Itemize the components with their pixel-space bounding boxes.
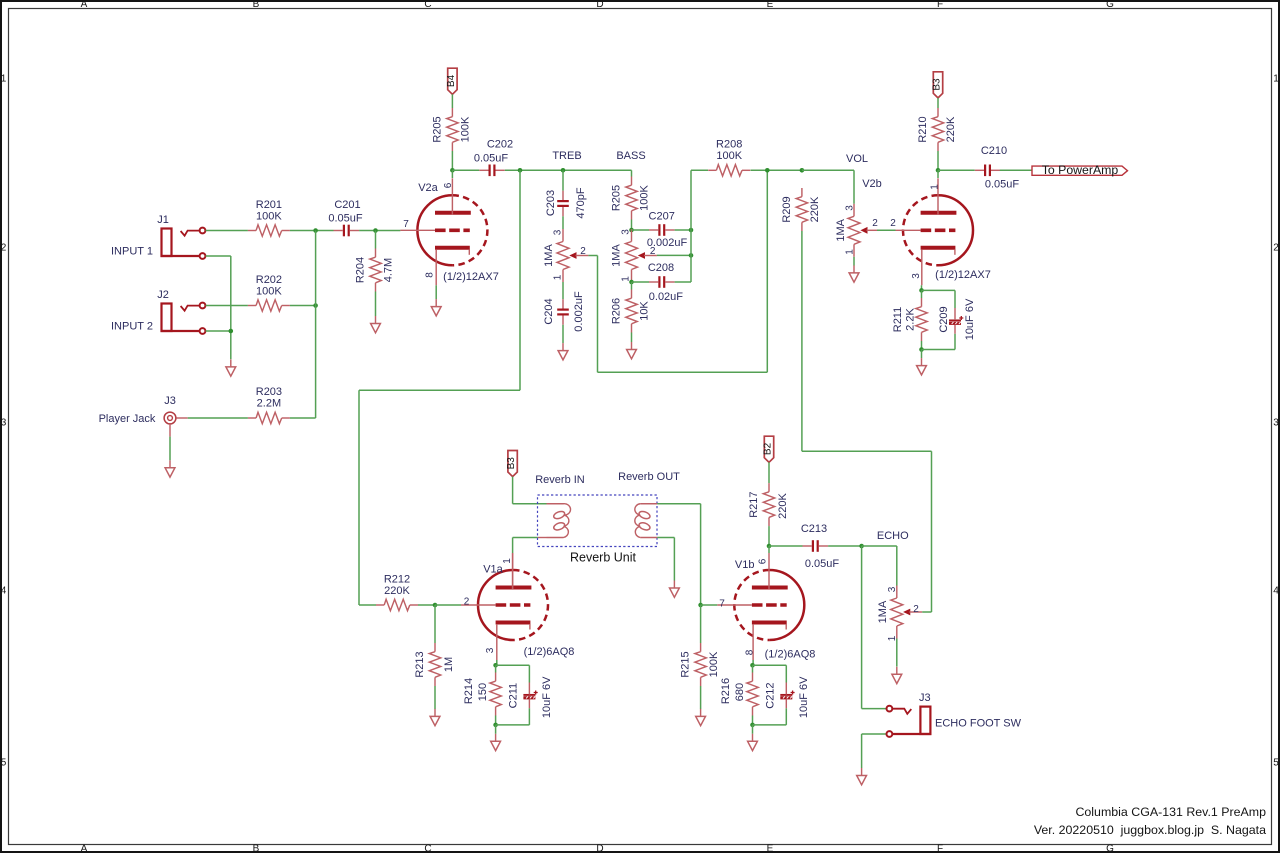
- svg-text:C209: C209: [938, 306, 950, 332]
- svg-text:INPUT 2: INPUT 2: [111, 320, 153, 332]
- svg-text:1M: 1M: [443, 657, 455, 672]
- svg-text:R205: R205: [431, 116, 443, 142]
- svg-text:R210: R210: [917, 116, 929, 142]
- svg-text:8: 8: [744, 649, 755, 655]
- svg-text:J1: J1: [157, 214, 169, 226]
- svg-text:R205: R205: [610, 185, 622, 211]
- svg-text:1MA: 1MA: [877, 600, 889, 623]
- svg-text:3: 3: [887, 586, 898, 592]
- svg-text:3: 3: [911, 273, 922, 279]
- svg-text:C213: C213: [801, 523, 827, 535]
- svg-text:R209: R209: [781, 196, 793, 222]
- svg-text:3: 3: [485, 647, 496, 653]
- svg-text:100K: 100K: [256, 286, 282, 298]
- svg-text:(1/2)12AX7: (1/2)12AX7: [935, 269, 991, 281]
- svg-text:D: D: [596, 0, 603, 10]
- svg-text:(1/2)6AQ8: (1/2)6AQ8: [524, 646, 575, 658]
- svg-text:1MA: 1MA: [543, 244, 555, 267]
- svg-text:C: C: [424, 844, 431, 853]
- svg-text:0.002uF: 0.002uF: [573, 291, 585, 332]
- svg-text:B: B: [253, 844, 260, 853]
- svg-text:680: 680: [734, 683, 746, 701]
- svg-text:10uF 6V: 10uF 6V: [798, 676, 810, 718]
- svg-text:2: 2: [872, 218, 878, 229]
- svg-text:1: 1: [553, 274, 564, 280]
- svg-text:Reverb OUT: Reverb OUT: [618, 471, 680, 483]
- svg-text:Reverb IN: Reverb IN: [535, 474, 585, 486]
- svg-text:A: A: [81, 0, 88, 10]
- svg-text:A: A: [81, 844, 88, 853]
- svg-text:C202: C202: [487, 138, 513, 150]
- svg-text:Ver. 20220510 juggbox.blog.jp: Ver. 20220510 juggbox.blog.jp S. Nagata: [1034, 823, 1266, 837]
- svg-text:R213: R213: [414, 651, 426, 677]
- svg-text:E: E: [767, 844, 774, 853]
- svg-text:3: 3: [1273, 418, 1279, 429]
- svg-text:0.05uF: 0.05uF: [328, 212, 363, 224]
- svg-text:BASS: BASS: [616, 150, 645, 162]
- svg-text:5: 5: [1, 758, 7, 769]
- svg-text:1: 1: [930, 184, 941, 190]
- svg-text:1: 1: [845, 249, 856, 255]
- svg-text:C204: C204: [543, 298, 555, 324]
- svg-text:1: 1: [502, 558, 513, 564]
- svg-text:3: 3: [845, 205, 856, 211]
- svg-text:100K: 100K: [459, 116, 471, 142]
- svg-text:Player Jack: Player Jack: [99, 413, 156, 425]
- svg-text:C212: C212: [764, 682, 776, 708]
- svg-text:C201: C201: [334, 199, 360, 211]
- svg-text:R214: R214: [463, 678, 475, 704]
- svg-text:R217: R217: [748, 491, 760, 517]
- svg-text:6: 6: [443, 182, 454, 188]
- svg-text:3: 3: [621, 229, 632, 235]
- svg-text:100K: 100K: [708, 651, 720, 677]
- svg-text:7: 7: [719, 599, 725, 610]
- svg-text:220K: 220K: [777, 492, 789, 518]
- svg-text:2: 2: [913, 604, 919, 615]
- svg-text:ECHO FOOT SW: ECHO FOOT SW: [935, 717, 1022, 729]
- svg-text:0.05uF: 0.05uF: [805, 558, 840, 570]
- svg-text:J2: J2: [157, 289, 169, 301]
- svg-text:R215: R215: [679, 651, 691, 677]
- svg-text:2: 2: [1, 243, 7, 254]
- svg-text:100K: 100K: [638, 184, 650, 210]
- svg-text:5: 5: [1273, 758, 1279, 769]
- svg-text:C210: C210: [981, 145, 1007, 157]
- svg-text:1MA: 1MA: [610, 244, 622, 267]
- svg-text:0.002uF: 0.002uF: [647, 237, 688, 249]
- svg-text:B: B: [253, 0, 260, 10]
- svg-text:8: 8: [425, 272, 436, 278]
- svg-text:ECHO: ECHO: [877, 530, 909, 542]
- svg-text:7: 7: [403, 219, 409, 230]
- svg-text:4: 4: [1, 586, 7, 597]
- svg-text:G: G: [1106, 844, 1114, 853]
- svg-text:100K: 100K: [256, 211, 282, 223]
- svg-text:10uF 6V: 10uF 6V: [964, 298, 976, 340]
- svg-text:C207: C207: [649, 211, 675, 223]
- svg-text:VOL: VOL: [846, 153, 868, 165]
- svg-text:G: G: [1106, 0, 1114, 10]
- svg-text:B3: B3: [932, 78, 943, 91]
- svg-text:F: F: [937, 844, 943, 853]
- svg-text:J3: J3: [919, 692, 931, 704]
- svg-text:2: 2: [580, 246, 586, 257]
- svg-text:B4: B4: [446, 74, 457, 87]
- svg-text:3: 3: [553, 229, 564, 235]
- svg-text:2: 2: [1273, 243, 1279, 254]
- svg-text:D: D: [596, 844, 603, 853]
- svg-text:R212: R212: [384, 573, 410, 585]
- svg-text:(1/2)6AQ8: (1/2)6AQ8: [765, 649, 816, 661]
- svg-text:C203: C203: [545, 190, 557, 216]
- svg-text:V1b: V1b: [735, 559, 755, 571]
- svg-text:R216: R216: [720, 678, 732, 704]
- svg-text:V2a: V2a: [418, 182, 438, 194]
- svg-text:2: 2: [464, 597, 470, 608]
- svg-text:R208: R208: [716, 139, 742, 151]
- svg-text:220K: 220K: [945, 116, 957, 142]
- svg-text:Reverb Unit: Reverb Unit: [570, 550, 637, 564]
- svg-text:4.7M: 4.7M: [382, 258, 394, 282]
- svg-text:V2b: V2b: [862, 178, 882, 190]
- svg-text:1: 1: [1273, 74, 1279, 85]
- svg-text:B2: B2: [763, 442, 774, 455]
- svg-text:220K: 220K: [809, 196, 821, 222]
- svg-text:V1a: V1a: [483, 563, 503, 575]
- svg-text:R204: R204: [354, 257, 366, 283]
- svg-text:To PowerAmp: To PowerAmp: [1042, 163, 1119, 177]
- svg-text:10uF 6V: 10uF 6V: [541, 676, 553, 718]
- svg-text:J3: J3: [164, 395, 176, 407]
- svg-text:R211: R211: [892, 307, 904, 332]
- svg-text:C211: C211: [508, 683, 520, 708]
- svg-text:Columbia CGA-131 Rev.1 PreAmp: Columbia CGA-131 Rev.1 PreAmp: [1075, 805, 1266, 819]
- svg-text:0.05uF: 0.05uF: [985, 178, 1020, 190]
- svg-text:C: C: [424, 0, 431, 10]
- svg-text:150: 150: [477, 683, 489, 701]
- svg-text:6: 6: [758, 558, 769, 564]
- svg-text:0.05uF: 0.05uF: [474, 152, 509, 164]
- svg-text:R203: R203: [256, 386, 282, 398]
- svg-text:1: 1: [1, 74, 7, 85]
- svg-text:0.02uF: 0.02uF: [649, 291, 684, 303]
- svg-text:100K: 100K: [716, 150, 742, 162]
- svg-text:TREB: TREB: [552, 150, 581, 162]
- svg-text:1MA: 1MA: [835, 218, 847, 241]
- svg-text:470pF: 470pF: [575, 187, 587, 218]
- svg-text:R206: R206: [610, 298, 622, 324]
- svg-text:10K: 10K: [638, 301, 650, 321]
- svg-text:INPUT 1: INPUT 1: [111, 245, 153, 257]
- svg-text:E: E: [767, 0, 774, 10]
- svg-text:3: 3: [1, 418, 7, 429]
- svg-text:F: F: [937, 0, 943, 10]
- svg-text:220K: 220K: [384, 585, 410, 597]
- svg-text:(1/2)12AX7: (1/2)12AX7: [443, 271, 499, 283]
- svg-text:C208: C208: [648, 262, 674, 274]
- svg-text:R201: R201: [256, 199, 282, 211]
- svg-text:2.2K: 2.2K: [904, 308, 916, 331]
- svg-text:2.2M: 2.2M: [257, 397, 281, 409]
- svg-text:4: 4: [1273, 586, 1279, 597]
- svg-text:R202: R202: [256, 274, 282, 286]
- svg-text:2: 2: [890, 218, 896, 229]
- svg-text:B3: B3: [506, 457, 517, 470]
